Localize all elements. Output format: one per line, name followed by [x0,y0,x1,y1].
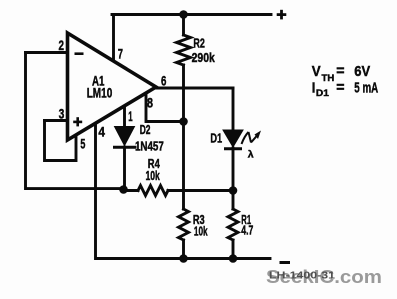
wire R2 bottom down to R3 top (crosses pin6 row, joins pin8 node) [182,65,185,209]
wire pin 3 input [45,119,68,122]
svg-text:3: 3 [59,107,65,122]
wire feedback left leg down and right to D2/R4 node [26,53,124,189]
wire D1 anode drop [232,88,235,130]
op-amp A1 triangle [68,33,157,140]
svg-text:D2: D2 [140,123,151,137]
wire pin 4 lead down to bottom rail [96,124,271,259]
LED D1 symbol [223,130,243,149]
watermark SeekIC.com with figure number [266,267,382,287]
node: feedback / D2 cathode / R4 junction [119,185,128,194]
svg-text:=: = [336,79,345,96]
svg-text:1: 1 [128,109,133,124]
svg-text:8: 8 [147,96,153,111]
LED D1 light arrows [242,132,259,144]
wire V+ top rail [112,13,271,16]
minus input symbol [75,52,84,55]
svg-text:LH-1400-31: LH-1400-31 [269,270,335,282]
svg-text:6: 6 [161,74,167,89]
label R3 value 10k [193,213,208,239]
wire R1 bottom lead [232,240,235,259]
node: R1 / bottom rail junction [229,254,238,263]
svg-text:4: 4 [98,125,105,140]
svg-text:D1: D1 [316,88,329,98]
+ supply terminal [277,10,287,20]
svg-text:TH: TH [322,73,335,83]
label A1 LM10 [87,73,113,100]
wire pin 8 dogleg to node [146,93,184,122]
wire D2 cathode to node [123,147,126,190]
svg-text:290k: 290k [192,51,215,65]
wire R1 top lead [232,191,235,210]
wire pin 3 to pin 5 loop [45,121,77,161]
wire pin 7 lead to V+ rail [112,15,115,63]
label D2 value 1N457 [135,123,164,154]
diode D2 symbol [113,127,137,148]
svg-text:7: 7 [118,46,123,61]
svg-text:LM10: LM10 [87,86,113,101]
wire R4 left lead [124,189,139,192]
wire pin 1 lead to D2 [123,107,126,127]
svg-text:10k: 10k [146,169,160,183]
label R2 value 290k [192,36,215,65]
wire R3 bottom lead [182,240,185,259]
annotation VTH = 6V [312,63,370,84]
svg-text:6V: 6V [354,63,370,80]
wire pin 6 output row [156,87,233,90]
resistor R2 zigzag [177,35,191,65]
label R4 value 10k [146,157,160,183]
plus input symbol [73,117,82,126]
resistor R3 zigzag [179,209,189,240]
- supply terminal [280,261,291,264]
svg-text:V: V [312,63,321,80]
svg-text:4.7: 4.7 [241,224,253,238]
wire pin 2 input [26,51,68,54]
svg-text:I: I [312,79,316,96]
svg-text:2: 2 [59,38,65,53]
svg-text:λ: λ [248,149,254,161]
svg-text:R2: R2 [193,36,205,50]
svg-text:D1: D1 [210,132,222,146]
node: D1 cathode / R4 / R1 junction [229,186,238,195]
wire R4 right lead to D1 cathode node (crosses R3 line) [168,189,233,192]
label R1 value 4.7 [241,213,253,237]
wire R2 top lead [182,15,185,36]
node: pin 8 / R2-R3 junction [179,117,188,126]
svg-text:1N457: 1N457 [135,140,164,154]
node: R3 / bottom rail junction [179,254,188,263]
resistor R1 zigzag [228,209,238,240]
wire D1 cathode to node [232,148,235,191]
svg-text:=: = [336,63,345,80]
node: V+ rail / R2 junction [179,10,188,19]
svg-text:5 mA: 5 mA [354,79,378,96]
svg-text:5: 5 [80,136,85,151]
resistor R4 zigzag [138,186,168,196]
annotation ID1 = 5 mA [312,79,379,98]
svg-text:10k: 10k [194,224,208,238]
